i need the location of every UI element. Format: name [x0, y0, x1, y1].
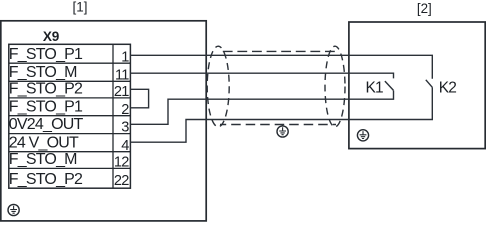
svg-text:12: 12: [114, 155, 129, 171]
wire pin3 to K1 bottom: [130, 91, 393, 125]
svg-text:F_STO_P1: F_STO_P1: [9, 98, 83, 115]
ground symbol cable shield: [277, 125, 288, 138]
svg-text:2: 2: [121, 102, 129, 118]
wire pin4 to K2 bottom: [130, 87, 432, 142]
X9 pin numbers: [114, 49, 129, 189]
svg-text:F_STO_P1: F_STO_P1: [9, 46, 83, 63]
svg-text:[1]: [1]: [73, 0, 88, 15]
svg-text:3: 3: [121, 120, 129, 136]
cable shield top dashed line: [220, 50, 336, 52]
cable left ellipse: [207, 46, 229, 127]
ground symbol box2: [357, 130, 368, 141]
cable shield bottom dashed line: [220, 124, 336, 126]
svg-text:[2]: [2]: [417, 1, 432, 16]
jumper pin21 to pin2: [130, 89, 148, 108]
svg-text:0V24_OUT: 0V24_OUT: [9, 116, 84, 133]
svg-text:F_STO_M: F_STO_M: [9, 151, 77, 168]
device box [1]: [1, 21, 206, 221]
X9 pin column divider: [112, 44, 114, 188]
svg-text:F_STO_P2: F_STO_P2: [9, 81, 83, 98]
wire pin11 to K1 top: [130, 73, 393, 78]
svg-text:21: 21: [114, 84, 129, 100]
ground symbol box1: [8, 204, 19, 215]
svg-text:11: 11: [115, 67, 129, 83]
svg-text:F_STO_P2: F_STO_P2: [9, 171, 83, 188]
svg-text:22: 22: [114, 173, 129, 189]
svg-text:F_STO_M: F_STO_M: [9, 64, 77, 81]
X9 row labels: [9, 46, 84, 188]
connector X9 table frame: [9, 44, 131, 188]
svg-text:X9: X9: [43, 29, 60, 44]
contact K1 blade: [385, 81, 394, 90]
svg-text:K2: K2: [439, 79, 456, 96]
device box [2]: [349, 22, 485, 149]
svg-text:4: 4: [121, 138, 129, 154]
svg-text:K1: K1: [366, 79, 383, 96]
wire pin1 to K2 top: [130, 55, 432, 78]
contact K2 blade: [426, 80, 433, 88]
cable right ellipse: [325, 46, 345, 127]
X9 row separators: [9, 63, 131, 168]
svg-text:1: 1: [121, 49, 129, 65]
svg-text:24 V_OUT: 24 V_OUT: [9, 134, 79, 151]
